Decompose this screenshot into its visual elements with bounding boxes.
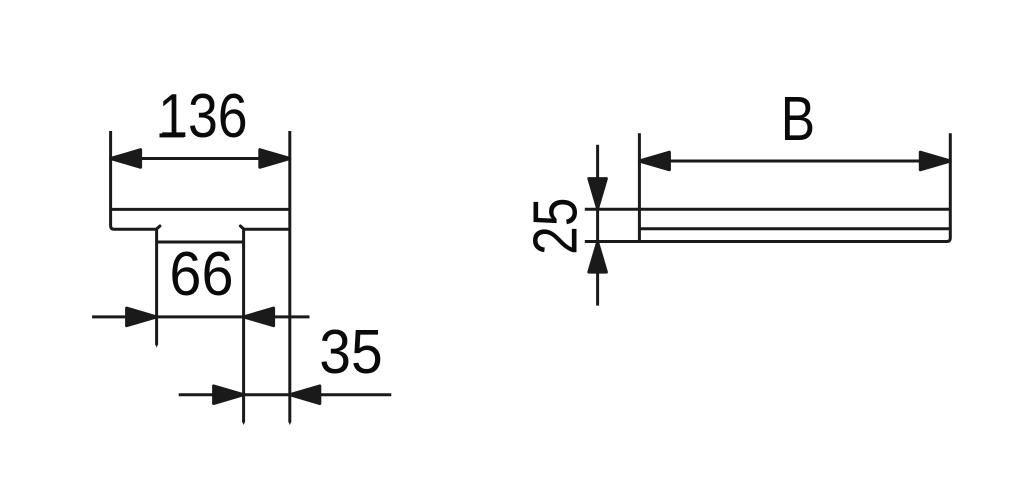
right view: left edge vertical [638, 133, 641, 241]
label 35 [319, 317, 382, 387]
label 1 base serif bar [160, 133, 185, 137]
stem s2 bottom taper nub [242, 422, 245, 425]
arrowhead 35 right [290, 386, 320, 404]
stem s1 bottom taper nub [155, 344, 158, 347]
dimension line 35 [179, 393, 392, 396]
left view: flange bottom-right segment [244, 228, 290, 231]
right view: top line with left extension [585, 208, 951, 211]
dimension line 25 (vertical) [596, 145, 599, 306]
arrowhead 25 top [589, 179, 607, 209]
label 136 [158, 83, 247, 151]
arrowhead 35 left [214, 386, 244, 404]
left view: right edge line (long extension) [288, 131, 291, 422]
right view: middle line [639, 227, 950, 230]
arrowhead 136 right [260, 150, 290, 168]
arrowhead B left [639, 152, 669, 170]
arrowhead 66 right [244, 308, 274, 326]
arrowhead 66 left [127, 308, 157, 326]
left view: notch tick left [157, 226, 160, 229]
right view: bottom line + rounded corner + right edge vertical [585, 133, 951, 241]
label 25 (rotated) [521, 198, 591, 255]
left view: stem left vertical [155, 229, 158, 344]
right edge V2 bottom taper nub [288, 422, 291, 425]
svg-text:B: B [781, 85, 815, 155]
svg-text:25: 25 [521, 198, 591, 255]
arrowhead B right [920, 152, 950, 170]
left view: left edge + flange bottom-left segment [111, 131, 157, 229]
left view: plate inner horizontal line [111, 208, 290, 211]
dimension line 66 [92, 315, 309, 318]
svg-text:136: 136 [158, 83, 247, 151]
arrowhead 25 bottom [589, 242, 607, 272]
label 66 [169, 239, 233, 308]
svg-text:35: 35 [319, 317, 382, 387]
dimension line 136 [111, 157, 290, 160]
left view: rib bottom horizontal [157, 241, 244, 244]
label B [781, 85, 815, 155]
svg-text:66: 66 [169, 239, 233, 308]
left view: stem right vertical (long extension) [242, 229, 245, 422]
left view: notch tick right [240, 226, 243, 229]
dimension line B [639, 160, 950, 163]
arrowhead 136 left [111, 150, 141, 168]
